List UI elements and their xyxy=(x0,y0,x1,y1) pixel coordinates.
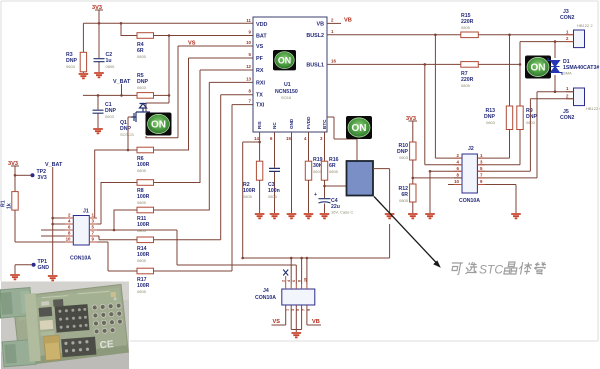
resistor R14 xyxy=(137,237,154,243)
resistor R2 xyxy=(256,161,262,180)
power flag 3V3 top-left xyxy=(92,5,103,11)
terminal block lower xyxy=(2,339,36,366)
svg-text:CON2: CON2 xyxy=(560,15,575,21)
junction D1 bottom xyxy=(554,90,557,93)
wire R12 bottom xyxy=(412,202,414,213)
wire D1 bottom riser xyxy=(554,75,556,92)
wire PF riser to R6 xyxy=(154,58,189,150)
svg-text:3V3: 3V3 xyxy=(38,175,47,181)
note text: optional STC crystal (CJK drawn as strokes) xyxy=(450,262,479,275)
connector J4 xyxy=(282,289,315,305)
wire V_BAT label drop xyxy=(121,84,123,95)
svg-text:CON10A: CON10A xyxy=(255,295,276,301)
svg-text:0805: 0805 xyxy=(399,198,409,203)
resistor R13 xyxy=(506,106,512,130)
ground below R12 xyxy=(408,214,418,218)
ground below C3 xyxy=(270,214,280,218)
wire R3 branch xyxy=(82,23,84,73)
wire C1 branch xyxy=(97,95,99,128)
svg-text:0805: 0805 xyxy=(243,194,253,199)
svg-text:0805: 0805 xyxy=(137,168,147,173)
junction J1 pin9 xyxy=(113,229,116,232)
wire TX pin row xyxy=(221,94,253,96)
junction D1 top xyxy=(554,40,557,43)
J1 pin numbers left xyxy=(66,213,71,242)
junction BAT riser xyxy=(168,34,171,37)
resistor R8 xyxy=(137,180,154,186)
svg-text:16V, Case C: 16V, Case C xyxy=(331,210,353,215)
left small parts xyxy=(39,307,53,317)
capacitor C2 xyxy=(94,59,105,62)
wire R1 bottom to J1 pin10 xyxy=(15,210,73,242)
wire TP1 to ground xyxy=(15,265,32,274)
svg-text:0603: 0603 xyxy=(486,120,496,125)
svg-text:16: 16 xyxy=(331,58,336,63)
ground below C4 xyxy=(320,214,330,218)
power flag 3V3 left-bottom xyxy=(8,161,19,167)
connector J5 xyxy=(574,88,585,106)
connector J2 xyxy=(462,154,477,193)
wire J1 pin9 to R17 xyxy=(89,242,137,271)
svg-text:U1: U1 xyxy=(284,82,291,88)
photo haze overlay xyxy=(1,282,129,369)
wire VS pin row xyxy=(178,45,253,47)
U1 left pin names xyxy=(256,22,267,109)
svg-text:13: 13 xyxy=(246,76,251,81)
svg-text:VS: VS xyxy=(188,41,196,47)
svg-text:TX: TX xyxy=(256,93,263,99)
junction rail/R4 xyxy=(120,22,123,25)
net label VB xyxy=(344,18,352,24)
svg-text:11: 11 xyxy=(246,18,251,23)
ON logo above crystal xyxy=(346,116,372,139)
svg-text:SO16: SO16 xyxy=(281,95,292,100)
wire J2 pin stubs bright xyxy=(454,158,485,184)
svg-text:VS: VS xyxy=(273,319,281,325)
wire RXI pin row xyxy=(209,81,253,83)
wire BTC to R16 xyxy=(324,132,326,161)
ground below R2 xyxy=(255,214,265,218)
ground below R19 xyxy=(304,214,314,218)
svg-text:J1: J1 xyxy=(83,209,89,215)
junction J1 pin4 xyxy=(51,223,54,226)
wire 3V3 to R1 xyxy=(14,166,16,192)
junction rail/C2 xyxy=(98,22,101,25)
svg-text:TXI: TXI xyxy=(256,103,265,109)
U1 right pin names xyxy=(306,21,324,68)
svg-text:SOT-23: SOT-23 xyxy=(120,132,135,137)
svg-text:9: 9 xyxy=(307,309,311,311)
svg-text:0805: 0805 xyxy=(106,64,116,69)
wire crystal right to ground xyxy=(373,169,390,213)
ground below GND pin xyxy=(287,214,297,218)
wire R19 bottom xyxy=(308,180,310,213)
junction BUSL2/J2 riser xyxy=(434,34,437,37)
svg-text:PF: PF xyxy=(256,56,264,62)
wire J5 pin2 row xyxy=(477,99,573,172)
U1 bottom pin numbers xyxy=(254,136,323,141)
ground below TP1 xyxy=(10,275,20,279)
ground below J2 pin9 xyxy=(511,214,521,218)
svg-text:VB: VB xyxy=(312,319,320,325)
wire RIS branch xyxy=(243,132,390,284)
svg-text:J4: J4 xyxy=(263,288,269,294)
svg-text:0603: 0603 xyxy=(66,64,76,69)
U1 bottom pin names rotated xyxy=(257,116,327,129)
svg-text:0805: 0805 xyxy=(268,194,278,199)
wire C2 branch xyxy=(98,23,100,72)
svg-text:0805: 0805 xyxy=(329,169,339,174)
svg-text:6: 6 xyxy=(292,280,296,282)
resistor R11 xyxy=(137,207,154,213)
diode D1 TVS xyxy=(548,58,599,76)
svg-text:0805: 0805 xyxy=(461,25,471,30)
junction RIS long run xyxy=(241,257,244,260)
capacitor C3 xyxy=(269,168,280,171)
svg-text:5: 5 xyxy=(296,309,300,311)
wire J3 J5 pin stubs bright xyxy=(566,35,574,99)
wire RX riser to R8 xyxy=(154,70,201,183)
wire RXI riser to R11 xyxy=(154,82,210,210)
svg-text:10: 10 xyxy=(454,179,459,184)
svg-text:15: 15 xyxy=(286,136,291,141)
svg-text:HB122 2: HB122 2 xyxy=(577,23,593,28)
wire J1 pin8 stub xyxy=(41,235,73,237)
svg-text:14: 14 xyxy=(254,136,259,141)
ON logo near Q1 xyxy=(146,113,172,136)
resistor R19 xyxy=(305,161,311,180)
wire J4 VS pin xyxy=(272,305,286,325)
resistor R3 xyxy=(80,52,86,72)
J4 top pin stubs xyxy=(286,276,307,289)
wire R13 riser xyxy=(477,35,509,158)
junction mid feed xyxy=(290,257,293,260)
capacitor C1 xyxy=(93,110,104,113)
junction J2 pin6 xyxy=(429,170,432,173)
wire Q1 gate to R6 row xyxy=(128,117,131,150)
junction R10-R12/J2 pin8 xyxy=(412,177,415,180)
connector J3 xyxy=(574,30,585,48)
wire BAT row to U1 pin 9 xyxy=(154,35,254,37)
wire R2 bottom xyxy=(259,180,261,213)
svg-text:STC: STC xyxy=(479,263,503,277)
wire 3V3 to R10 xyxy=(412,121,414,142)
wire J1 pin stubs bright xyxy=(65,218,97,242)
ground below J2 pin6 drop xyxy=(425,214,435,218)
wire U1 crystal pin to crystal top xyxy=(327,117,357,161)
junction R9 riser xyxy=(519,63,522,66)
wire J1 pin6 stub xyxy=(41,229,73,231)
resistor R10 xyxy=(410,142,416,160)
svg-text:CON10A: CON10A xyxy=(70,256,91,262)
wire V_BAT row xyxy=(83,94,137,96)
svg-text:0603: 0603 xyxy=(137,85,147,90)
wire TXI riser to J4 xyxy=(154,105,233,271)
J1 pin numbers right xyxy=(92,213,95,242)
wire J2 pin9 to ground xyxy=(477,185,516,214)
junction RIS run J4 b xyxy=(300,257,303,260)
ground below crystal branch xyxy=(385,214,395,218)
wire GND pin straight xyxy=(291,132,293,213)
transistor Q1 xyxy=(120,104,150,138)
wire J2 pin6 row and ground drop xyxy=(430,171,462,213)
junction J1 pin2 xyxy=(51,217,54,220)
J4 top pin numbers rotated xyxy=(282,278,308,282)
svg-text:0603: 0603 xyxy=(399,155,409,160)
svg-text:0805: 0805 xyxy=(137,200,147,205)
svg-text:*: * xyxy=(541,260,545,270)
svg-text:1k: 1k xyxy=(7,203,13,209)
wire Q1 drain from BAT riser xyxy=(146,95,169,112)
wire TX riser to J4 xyxy=(154,95,221,240)
central black header xyxy=(55,304,90,333)
J2 pin numbers right xyxy=(480,153,483,184)
wire J1 pin3 to R8 xyxy=(89,183,137,225)
wire J5 pin1 row xyxy=(477,92,573,178)
resistor R1 xyxy=(12,192,18,211)
J5 pin numbers xyxy=(566,86,569,98)
svg-text:BAT: BAT xyxy=(256,34,267,40)
resistor R17 xyxy=(137,268,154,274)
wire VS riser xyxy=(177,46,179,138)
svg-text:BUSL2: BUSL2 xyxy=(306,33,324,39)
wire FVDD to R19 xyxy=(308,132,310,161)
J3 pin numbers xyxy=(566,29,569,41)
resistor R6 xyxy=(137,147,154,153)
resistor R12 xyxy=(410,184,416,202)
svg-text:0805: 0805 xyxy=(461,83,471,88)
capacitor C4 polarized xyxy=(314,192,331,203)
wire BUSL2 riser to J2 pin2 xyxy=(435,35,462,158)
svg-text:8: 8 xyxy=(298,280,302,282)
svg-text:0603: 0603 xyxy=(105,114,115,119)
wire J3 pin2 row riser xyxy=(520,42,574,65)
wire J2 pin10 stub xyxy=(448,184,462,186)
svg-text:RX: RX xyxy=(256,68,264,74)
junction RIS run J4 xyxy=(306,257,309,260)
resistor R15 xyxy=(461,32,479,38)
J4 bottom pin numbers rotated xyxy=(286,309,311,311)
wire J1 pin5 to R11 xyxy=(89,210,296,284)
resistor R4 xyxy=(137,33,154,39)
wire RX pin row xyxy=(200,69,253,71)
ON logo inside U1 xyxy=(273,50,296,70)
svg-text:VS: VS xyxy=(256,44,264,50)
terminal block upper xyxy=(0,288,32,318)
connector J1 xyxy=(73,216,89,246)
wire R5 right to riser xyxy=(154,94,170,96)
svg-text:VB: VB xyxy=(344,18,352,24)
svg-text:10: 10 xyxy=(66,237,71,242)
U1 left pin numbers xyxy=(246,18,251,104)
wire R10/R12 mid to J2 pin8 xyxy=(413,160,462,184)
svg-text:SMA: SMA xyxy=(563,71,572,76)
svg-text:0805: 0805 xyxy=(137,289,147,294)
svg-text:V_BAT: V_BAT xyxy=(45,162,63,168)
svg-text:GND: GND xyxy=(38,265,50,271)
wire BAT riser down xyxy=(168,36,170,96)
junction TP2 branch xyxy=(14,174,17,177)
wire BUSL1 row xyxy=(327,63,520,65)
wire BUSL2 row to J3 pin1 xyxy=(327,34,574,36)
svg-text:RXI: RXI xyxy=(256,81,265,87)
power flag 3V3 right xyxy=(406,116,417,122)
resistor R7 xyxy=(461,62,479,68)
junction C1 xyxy=(97,94,100,97)
junction R6 row / Q1 gate xyxy=(127,149,130,152)
wire Q1 source below logo xyxy=(146,136,178,138)
wire R16 bottom to C4 and crystal xyxy=(325,180,347,213)
wire BUSL1 riser to J2 pin4 xyxy=(425,64,462,164)
ground below V_BAT drop xyxy=(48,276,58,280)
junction R16/C4/crystal xyxy=(323,185,326,188)
wire D1 top riser xyxy=(554,42,556,58)
svg-text:2: 2 xyxy=(282,280,286,282)
junction RIS jog xyxy=(258,141,261,144)
svg-text:10: 10 xyxy=(304,278,308,282)
svg-text:RIS: RIS xyxy=(257,121,262,129)
wire NC/C3 branch xyxy=(274,132,276,213)
ground below C1 xyxy=(93,129,103,133)
J2 pin numbers left xyxy=(454,153,459,184)
silkscreen marks xyxy=(42,291,110,297)
annotation arrow to note xyxy=(374,197,438,265)
svg-text:+: + xyxy=(314,192,317,198)
U1 designator labels xyxy=(275,82,298,100)
wire J4 VB pin xyxy=(307,305,321,325)
wire R9 riser xyxy=(477,64,520,164)
test point TP1 xyxy=(32,259,50,271)
ground below R3 xyxy=(79,74,89,78)
resistor R16 xyxy=(321,161,327,180)
resistor R5 xyxy=(137,93,154,99)
resistor R9 xyxy=(517,106,523,130)
svg-text:BUSL1: BUSL1 xyxy=(306,62,324,68)
wire R17 right to J4 no-connect xyxy=(154,270,233,272)
svg-text:0805: 0805 xyxy=(137,258,147,263)
svg-text:CON10A: CON10A xyxy=(459,198,480,204)
svg-text:HB122 0: HB122 0 xyxy=(586,106,600,111)
test point TP2 xyxy=(31,169,47,181)
U1 right pin numbers xyxy=(331,17,336,63)
junction V_BAT row xyxy=(120,94,123,97)
svg-text:VDD: VDD xyxy=(256,22,267,28)
svg-text:0805: 0805 xyxy=(137,54,147,59)
wire 3V3/VDD rail xyxy=(83,22,253,24)
svg-text:GND: GND xyxy=(289,118,294,129)
right pad grid xyxy=(92,303,123,334)
PCB photo background xyxy=(1,282,129,369)
svg-text:VB: VB xyxy=(317,21,325,27)
PCB board photo xyxy=(0,280,129,367)
wire 3V3 drop to rail xyxy=(98,10,100,23)
wire VB stub pin2 xyxy=(327,22,341,24)
bottom header xyxy=(61,337,96,358)
svg-text:CON2: CON2 xyxy=(560,115,575,121)
svg-text:BTC: BTC xyxy=(322,119,327,129)
op-amp/IC U1 NCN5150 body xyxy=(253,17,327,132)
junction BAT/R5 xyxy=(168,94,171,97)
wire J4 ground pins xyxy=(291,305,301,332)
light edge strip xyxy=(24,293,40,362)
svg-text:J2: J2 xyxy=(468,146,474,152)
crystal Y1 highlighted box xyxy=(347,161,374,196)
junction BUSL2/R13 riser xyxy=(508,34,511,37)
junction BUSL1/J2 riser xyxy=(424,63,427,66)
tan capacitor xyxy=(44,335,61,360)
svg-text:12: 12 xyxy=(246,64,251,69)
ground below J4 xyxy=(292,333,302,337)
ON logo near D1 xyxy=(525,56,551,79)
svg-text:FVDD: FVDD xyxy=(306,116,311,129)
svg-text:10: 10 xyxy=(246,40,251,45)
wire J1 pin1 to R6 xyxy=(89,150,137,218)
svg-text:NC: NC xyxy=(272,122,277,129)
no-connect X on J4 pin xyxy=(283,270,288,276)
wire J1 pin7 to R14 xyxy=(89,236,137,240)
wire J4 mid feed xyxy=(291,258,301,284)
wire V_BAT drop to J1 pin2 and ground xyxy=(53,167,74,275)
wire TXI pin row xyxy=(232,104,253,106)
wire PF pin row xyxy=(189,57,254,59)
ground below C2 xyxy=(94,73,104,77)
wire R4 branch xyxy=(121,23,137,35)
wire to TP2 xyxy=(15,174,31,176)
